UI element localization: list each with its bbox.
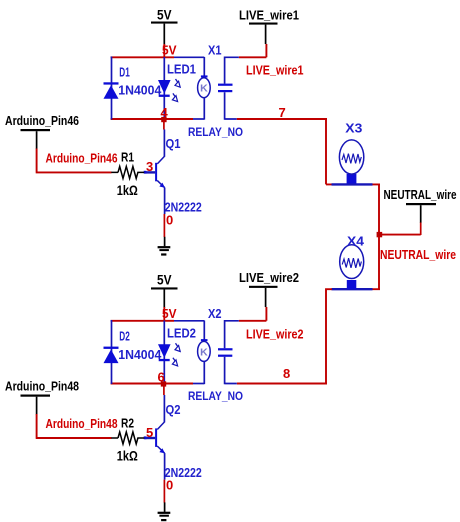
wire lamp X3 to neutral junction [373,184,381,235]
svg-text:7: 7 [279,105,286,120]
svg-text:X3: X3 [345,121,362,136]
svg-text:Q2: Q2 [166,402,181,417]
wire junction down to lamp X4 [373,236,381,289]
wire LIVE_wire2 to relay contact [239,307,267,321]
svg-text:K: K [200,346,208,358]
relay contact X2 [218,320,239,384]
svg-text:0: 0 [166,212,173,227]
resistor R1 [111,166,144,178]
svg-text:8: 8 [283,366,290,381]
svg-text:LIVE_wire2: LIVE_wire2 [239,270,299,285]
wire 5V terminal to net (bottom) [163,307,165,321]
svg-text:5V: 5V [162,306,177,321]
transistor Q1 2N2222 [144,156,165,187]
svg-text:Arduino_Pin46: Arduino_Pin46 [5,113,79,128]
svg-text:D1: D1 [119,64,130,79]
wire Q2 emitter [164,453,166,480]
svg-text:X2: X2 [208,306,222,321]
svg-text:1N4004: 1N4004 [118,347,162,362]
svg-text:LIVE_wire2: LIVE_wire2 [246,326,304,341]
svg-text:RELAY_NO: RELAY_NO [188,389,243,403]
svg-text:X4: X4 [347,234,365,249]
svg-text:R1: R1 [121,151,134,165]
wire 5V terminal to net (top) [163,44,165,58]
svg-text:LIVE_wire1: LIVE_wire1 [239,8,299,23]
relay coil K (bottom) [198,321,211,385]
svg-text:3: 3 [146,159,153,174]
wire node6 to Q2 collector [163,384,165,395]
svg-text:LED1: LED1 [167,61,196,76]
svg-text:Q1: Q1 [166,136,181,151]
LED1 [158,57,180,120]
wire top rail red (box top) [111,56,174,58]
wire top rail blue segment to coil 2 [174,320,204,322]
svg-text:K: K [200,83,208,95]
wire bottom rail red (box 2 bottom, node 6) [111,383,193,385]
svg-text:5V: 5V [162,42,177,57]
ground (bottom) [158,502,171,521]
wire Q1 emitter [164,188,166,215]
svg-text:1N4004: 1N4004 [118,83,162,98]
svg-text:R2: R2 [121,416,134,430]
svg-text:RELAY_NO: RELAY_NO [188,125,243,139]
wire lamp X4 to relay 2 contact (net 8) [237,288,332,383]
wire emitter to ground (net 0 bottom) [163,480,165,503]
svg-text:X1: X1 [208,42,222,57]
wire emitter to ground (net 0) [163,214,165,237]
diode D2 1N4004 [104,320,119,384]
svg-text:Arduino_Pin48: Arduino_Pin48 [5,379,79,394]
svg-text:Arduino_Pin48: Arduino_Pin48 [46,416,118,431]
terminal LIVE_wire2 [239,270,299,307]
svg-text:Arduino_Pin46: Arduino_Pin46 [46,151,118,166]
power terminal 5V (top) [151,7,178,45]
terminal Arduino_Pin48 [5,379,79,415]
svg-text:5V: 5V [157,7,172,23]
wire top rail red (box 2 top) [111,320,174,322]
lamp X4 [332,245,373,290]
relay contact X1 [218,57,239,120]
wire junction to NEUTRAL terminal [379,234,421,236]
svg-text:5V: 5V [157,272,172,288]
svg-text:5: 5 [146,425,153,440]
svg-text:D2: D2 [119,329,130,344]
relay coil K (top) [198,57,211,120]
svg-text:NEUTRAL_wire: NEUTRAL_wire [384,187,457,202]
wire relay NO contact to lamp X3 (net 7) [237,118,332,184]
wire bottom rail blue segment to coil 2 [193,383,204,385]
lamp X3 [332,140,373,185]
wire bottom rail blue segment to coil [193,118,204,120]
diode D1 1N4004 [104,57,119,120]
LED2 [158,321,180,385]
svg-text:LIVE_wire1: LIVE_wire1 [246,63,304,78]
ground (top) [158,237,171,256]
power terminal 5V (bottom) [151,272,178,308]
svg-text:1kΩ: 1kΩ [117,182,138,198]
wire bottom rail red (box bottom, node 4) [111,118,193,120]
terminal Arduino_Pin46 [5,113,79,149]
wire Arduino_Pin48 to R2 [36,414,112,438]
transistor Q2 2N2222 [144,422,165,453]
junction node 6 [161,381,166,386]
junction neutral node [377,232,383,237]
svg-text:1kΩ: 1kΩ [117,448,138,464]
junction node 4 [161,117,166,122]
terminal NEUTRAL_wire [384,187,457,235]
wire top rail blue segment to coil [174,56,204,58]
resistor R2 [111,432,144,444]
svg-text:NEUTRAL_wire: NEUTRAL_wire [380,247,456,262]
svg-text:0: 0 [166,477,173,492]
wire Arduino_Pin46 to R1 [36,149,112,173]
svg-text:LED2: LED2 [167,326,196,341]
wire LIVE_wire1 to relay contact [239,44,267,57]
terminal LIVE_wire1 [239,8,299,45]
wire node4 to Q1 collector [163,120,165,130]
